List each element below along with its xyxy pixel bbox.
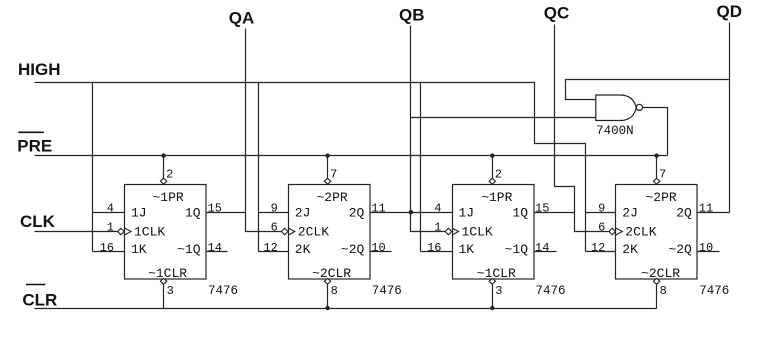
svg-text:14: 14 [535, 241, 549, 255]
JK flip-flop U4 (7476) body [616, 185, 698, 280]
svg-text:2K: 2K [295, 242, 311, 257]
svg-text:7: 7 [330, 168, 337, 182]
svg-text:2CLK: 2CLK [298, 225, 329, 240]
svg-text:9: 9 [598, 202, 605, 216]
svg-text:7476: 7476 [536, 284, 566, 298]
U4 active-low clear diamond [653, 278, 659, 284]
svg-text:2CLK: 2CLK [625, 225, 656, 240]
U1 active-low preset diamond [160, 178, 166, 184]
svg-text:2: 2 [166, 168, 173, 182]
wire NAND U5 output to PRE rail [643, 108, 668, 156]
svg-text:~1CLR: ~1CLR [148, 266, 187, 281]
wire U3 pin 3 lead (~1CLR) [492, 285, 494, 309]
svg-text:2: 2 [495, 168, 502, 182]
wire U1 pin 4 lead (1J) [93, 212, 125, 214]
wire CLK lead to U1 clock input [35, 231, 118, 233]
svg-text:~2CLR: ~2CLR [312, 266, 351, 281]
JK flip-flop U1 (7476) body [125, 185, 207, 280]
svg-text:1: 1 [107, 221, 114, 235]
svg-text:10: 10 [699, 241, 713, 255]
svg-text:7400N: 7400N [596, 124, 634, 138]
overline of PRE [18, 131, 44, 133]
svg-text:6: 6 [598, 221, 605, 235]
svg-text:QB: QB [399, 6, 425, 25]
wire U4 pin 8 lead (~2CLR) [656, 285, 658, 309]
U4 active-low preset diamond [653, 178, 659, 184]
junction PRE rail at U1 pin 2 [161, 153, 165, 157]
svg-text:1Q: 1Q [185, 205, 201, 220]
svg-text:4: 4 [434, 202, 441, 216]
wire U3 pin 14 stub (~1Q) [534, 251, 557, 253]
wire U2 pin 8 lead (~2CLR) [327, 285, 329, 309]
svg-text:3: 3 [495, 284, 502, 298]
svg-text:1CLK: 1CLK [462, 225, 493, 240]
svg-text:~2PR: ~2PR [645, 190, 676, 205]
svg-text:~1Q: ~1Q [505, 242, 529, 257]
wire HIGH dropper to U3 J/K [420, 83, 422, 252]
svg-text:12: 12 [263, 241, 277, 255]
svg-text:1Q: 1Q [512, 205, 528, 220]
svg-text:15: 15 [535, 202, 549, 216]
U2 active-low preset diamond [324, 178, 330, 184]
svg-text:~1PR: ~1PR [481, 190, 512, 205]
svg-text:7476: 7476 [372, 284, 402, 298]
wire U2 pin 11 lead to U3 pin 4 (2Q to 1J) [370, 212, 453, 214]
overline of CLR [26, 284, 46, 286]
wire HIGH rail with jog down to U4 J/K feed [35, 83, 586, 252]
svg-text:PRE: PRE [17, 137, 52, 156]
svg-text:2Q: 2Q [676, 205, 692, 220]
wire HIGH dropper to U1 J/K [92, 83, 94, 252]
svg-text:~2PR: ~2PR [316, 190, 347, 205]
U2 clock inversion diamond [281, 228, 288, 234]
wire node QA vertical, U1 Q to U2 clock [246, 29, 282, 232]
svg-text:QA: QA [229, 9, 255, 28]
svg-text:8: 8 [660, 284, 667, 298]
NAND gate U5 (7400N) body [596, 95, 637, 121]
svg-text:QC: QC [544, 4, 570, 23]
svg-text:~1CLR: ~1CLR [477, 266, 516, 281]
U3 clock inversion diamond [445, 228, 452, 234]
svg-text:14: 14 [208, 241, 222, 255]
JK flip-flop U3 (7476) body [453, 185, 535, 280]
svg-text:7476: 7476 [699, 284, 729, 298]
svg-text:CLR: CLR [22, 291, 57, 310]
U3 active-low preset diamond [489, 178, 495, 184]
wire PRE rail [35, 155, 668, 157]
svg-text:~2Q: ~2Q [668, 242, 692, 257]
wire U2 pin 10 stub (~2Q) [370, 251, 392, 253]
wire HIGH dropper to U2 J/K [258, 83, 260, 252]
wire U2 pin 9 lead (2J) [259, 212, 289, 214]
wire QD to NAND U5 input A [566, 80, 730, 100]
svg-text:9: 9 [271, 202, 278, 216]
wire U2 pin 12 lead (2K) [259, 251, 289, 253]
U2 active-low clear diamond [324, 278, 330, 284]
svg-text:1J: 1J [131, 205, 147, 220]
U3 clock edge triangle [452, 228, 459, 235]
svg-text:~2Q: ~2Q [341, 242, 365, 257]
junction QB at U2 pin 11 lead [409, 210, 413, 214]
U4 clock edge triangle [616, 228, 623, 235]
U1 clock edge triangle [125, 228, 132, 235]
junction PRE rail at U4 pin 7 [654, 153, 658, 157]
svg-text:10: 10 [371, 241, 385, 255]
svg-text:7476: 7476 [208, 284, 238, 298]
svg-text:HIGH: HIGH [18, 60, 61, 79]
svg-text:16: 16 [100, 241, 114, 255]
U1 active-low clear diamond [160, 278, 166, 284]
svg-text:1: 1 [434, 221, 441, 235]
svg-text:12: 12 [591, 241, 605, 255]
svg-text:CLK: CLK [20, 212, 56, 231]
wire U3 pin 15 lead (1Q) [534, 212, 575, 214]
svg-text:15: 15 [208, 202, 222, 216]
svg-text:~2CLR: ~2CLR [641, 266, 680, 281]
junction CLR rail at U2 pin 8 [325, 306, 329, 310]
wire node QC vertical with jog, U3 Q to U4 clock [555, 25, 610, 232]
JK flip-flop U2 (7476) body [289, 185, 371, 280]
svg-text:7: 7 [659, 168, 666, 182]
junction PRE rail at U3 pin 2 [490, 153, 494, 157]
junction CLR rail at U3 pin 3 [490, 306, 494, 310]
wire U4 pin 12 lead (2K) [586, 251, 616, 253]
svg-text:2J: 2J [295, 205, 311, 220]
wire U1 pin 15 lead (1Q) [207, 212, 246, 214]
svg-text:11: 11 [371, 202, 385, 216]
NAND gate U5 output bubble [636, 104, 642, 110]
wire node QD vertical [729, 23, 731, 213]
wire U4 pin 7 lead (~2PR) [656, 156, 658, 179]
wire U4 pin 11 lead (2Q) [698, 212, 730, 214]
wire U1 pin 16 lead (1K) [93, 251, 125, 253]
U1 clock inversion diamond [118, 228, 125, 234]
wire U3 pin 16 lead (1K) [421, 251, 453, 253]
U4 clock inversion diamond [609, 228, 616, 234]
svg-text:~1Q: ~1Q [177, 242, 201, 257]
svg-text:11: 11 [699, 202, 713, 216]
svg-text:6: 6 [271, 221, 278, 235]
svg-text:QD: QD [717, 2, 743, 21]
svg-text:3: 3 [167, 284, 174, 298]
wire U1 pin 2 lead (~1PR) [163, 156, 165, 179]
svg-text:1K: 1K [459, 242, 475, 257]
wire U1 pin 14 stub (~1Q) [207, 251, 228, 253]
wire U2 pin 7 lead (~2PR) [327, 156, 329, 179]
svg-text:1J: 1J [459, 205, 475, 220]
svg-text:1CLK: 1CLK [134, 225, 165, 240]
U3 active-low clear diamond [489, 278, 495, 284]
wire node QB vertical, U2 Q to U3 clock [411, 26, 446, 232]
wire U4 pin 9 lead (2J) [586, 212, 616, 214]
svg-text:8: 8 [331, 284, 338, 298]
wire CLR rail [35, 308, 657, 310]
svg-text:4: 4 [107, 202, 114, 216]
wire U1 pin 3 lead (~1CLR) [163, 285, 165, 309]
svg-text:2Q: 2Q [349, 205, 365, 220]
wire U4 pin 10 stub (~2Q) [698, 251, 720, 253]
svg-text:2K: 2K [622, 242, 638, 257]
svg-text:16: 16 [427, 241, 441, 255]
junction PRE rail at U2 pin 7 [325, 153, 329, 157]
svg-text:2J: 2J [622, 205, 638, 220]
U2 clock edge triangle [288, 228, 295, 235]
svg-text:~1PR: ~1PR [152, 190, 183, 205]
wire QB to NAND U5 input B [411, 117, 596, 119]
svg-text:1K: 1K [131, 242, 147, 257]
wire U3 pin 2 lead (~1PR) [492, 156, 494, 179]
